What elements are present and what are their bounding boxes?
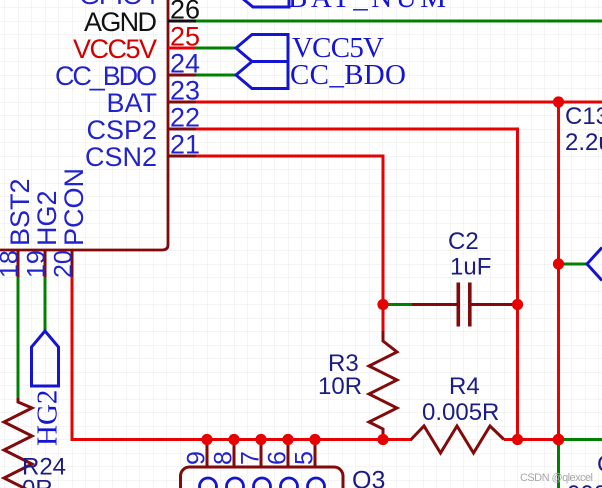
svg-text:CSDN @qlexcel: CSDN @qlexcel	[520, 472, 593, 484]
svg-text:25: 25	[170, 22, 200, 52]
junction C2 left	[377, 299, 388, 310]
svg-text:Q3: Q3	[352, 466, 385, 488]
svg-text:0.005R: 0.005R	[422, 399, 499, 426]
svg-text:CC_BDO: CC_BDO	[290, 59, 406, 91]
pin 22 CSP2	[168, 128, 196, 131]
svg-text:BST2: BST2	[5, 178, 35, 246]
svg-text:CSP2: CSP2	[86, 115, 157, 145]
wire pin18 to R24	[17, 277, 20, 398]
svg-text:0R: 0R	[22, 476, 53, 488]
wire green stub left of C2	[386, 303, 412, 306]
transistor Q3 body (clipped)	[181, 467, 344, 488]
pin 21 CSN2	[168, 155, 196, 158]
wire BAT net horizontal	[196, 101, 602, 104]
junction R4 right	[512, 434, 523, 445]
svg-text:C2: C2	[448, 228, 479, 255]
svg-text:AGND: AGND	[84, 7, 157, 37]
svg-text:19: 19	[23, 250, 51, 278]
svg-text:CC_BDO: CC_BDO	[55, 61, 157, 91]
wire pin24 to CC_BDO port	[196, 74, 236, 77]
junction BAT wire top	[553, 96, 564, 107]
svg-text:10R: 10R	[318, 373, 362, 400]
junction C2 right	[512, 299, 523, 310]
wire CSP2 net	[196, 129, 518, 440]
junction Q3 pin 7	[255, 434, 266, 445]
resistor R24 (clipped bottom-left)	[4, 398, 32, 488]
svg-text:2.2uF: 2.2uF	[565, 129, 602, 156]
svg-text:20: 20	[50, 250, 78, 278]
connector Q3 pin stubs	[206, 440, 209, 468]
svg-text:C13: C13	[565, 103, 602, 130]
svg-text:C15: C15	[597, 451, 602, 478]
wire pin25 to VCC5V port	[196, 47, 236, 50]
svg-text:PCON: PCON	[59, 168, 89, 246]
wire pin19 to HG2 port	[44, 277, 47, 331]
svg-text:HG2: HG2	[32, 190, 62, 246]
pin 26 AGND	[168, 20, 196, 23]
wire R4 right to BAT vertical	[504, 438, 559, 441]
pin 24 CC_BDO	[168, 74, 196, 77]
junction right port tap	[553, 258, 564, 269]
svg-text:BAT: BAT	[106, 88, 157, 118]
pin 19 HG2 (bottom)	[44, 250, 47, 277]
svg-text:9: 9	[183, 451, 211, 465]
svg-text:BAT_NUM: BAT_NUM	[288, 0, 446, 14]
svg-text:7: 7	[237, 451, 265, 465]
svg-text:VCC5V: VCC5V	[73, 34, 157, 64]
svg-text:18: 18	[0, 250, 24, 278]
svg-text:24: 24	[170, 49, 200, 79]
pin 25 VCC5V	[168, 47, 196, 50]
junction Q3 pin 5	[309, 434, 320, 445]
wire CSN2 net	[196, 156, 383, 305]
pin 18 BST2 (bottom)	[17, 250, 20, 277]
pin 20 PCON (bottom)	[71, 250, 74, 277]
resistor R3	[369, 331, 397, 436]
junction R3 bottom	[377, 434, 388, 445]
op-amp U? IC body outline	[0, 0, 168, 250]
port HG2	[32, 331, 59, 386]
resistor R4	[411, 426, 504, 453]
port BAT_NUM (top, clipped)	[237, 0, 289, 7]
wire R3 top red segment	[382, 305, 385, 333]
port right edge (clipped)	[587, 248, 602, 281]
port VCC5V	[236, 35, 288, 62]
wire green right of junction bottom	[559, 438, 602, 441]
svg-text:1uF: 1uF	[450, 254, 491, 281]
wire green to right port	[559, 263, 588, 266]
svg-text:CSN2: CSN2	[85, 142, 157, 172]
svg-text:HG2: HG2	[32, 390, 64, 446]
wire PCON net down and right	[72, 277, 412, 440]
svg-text:23: 23	[170, 76, 200, 106]
svg-text:5: 5	[291, 451, 319, 465]
wire BAT net vertical	[557, 102, 560, 440]
port CC_BDO	[236, 62, 288, 89]
wire green down from junction bottom	[557, 440, 560, 488]
svg-text:8: 8	[210, 451, 238, 465]
svg-text:R4: R4	[449, 373, 480, 400]
junction Q3 pin 6	[282, 434, 293, 445]
capacitor C2	[412, 303, 457, 306]
pin 23 BAT	[168, 101, 196, 104]
junction bottom right	[553, 434, 565, 446]
wire AGND net (pin 26 to right edge)	[196, 20, 602, 23]
svg-text:6: 6	[264, 451, 292, 465]
Q3 pin circles	[200, 478, 217, 488]
svg-text:22: 22	[170, 103, 200, 133]
svg-text:21: 21	[170, 130, 200, 160]
junction Q3 pin 9	[201, 434, 212, 445]
junction Q3 pin 8	[228, 434, 239, 445]
